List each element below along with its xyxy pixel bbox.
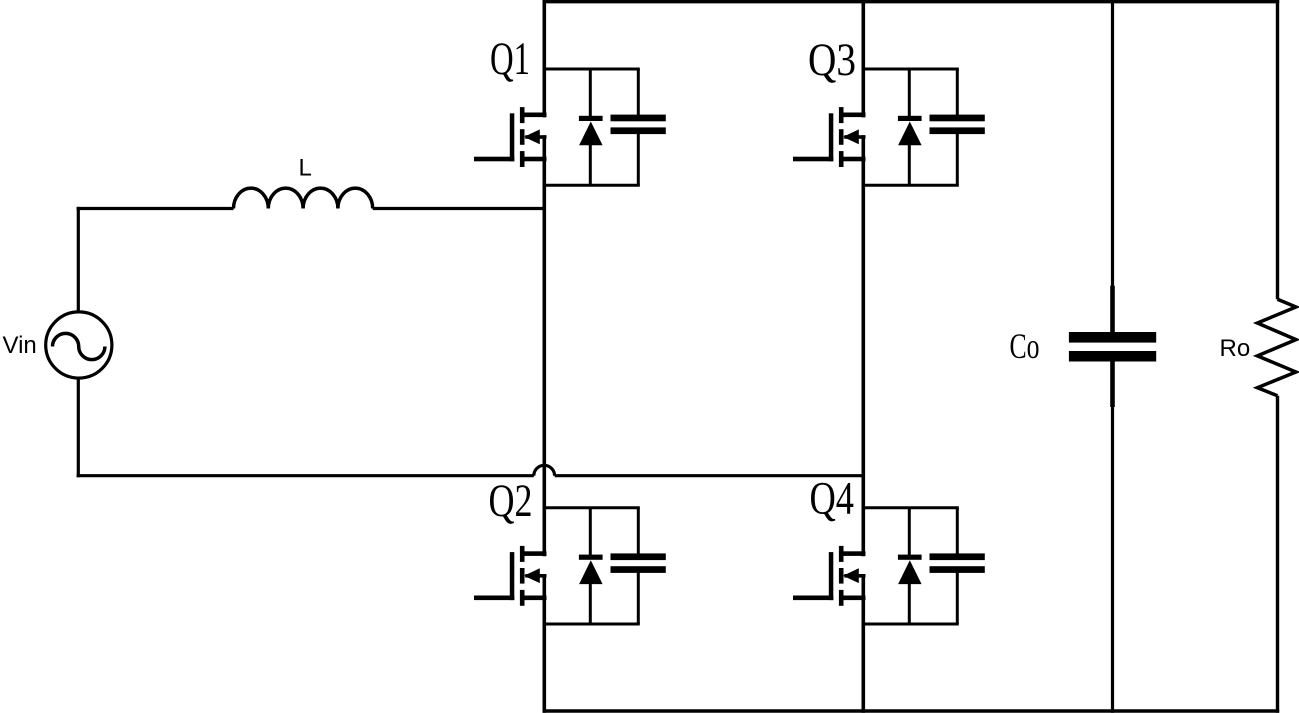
wire: right bridge leg (Q3/Q4), broken at MOSFET channels (861, 0, 865, 713)
transistor Q2 cell outline and internal wires (544, 508, 640, 624)
wire: right edge bottom lead from load (1276, 396, 1279, 713)
wire: inductor to left leg midpoint (node A) (373, 207, 545, 210)
wire: left bridge leg (Q1/Q2), broken at MOSFET channels (542, 0, 546, 713)
output capacitor Co branch wires (1111, 0, 1114, 713)
svg-text:Q2: Q2 (489, 475, 533, 527)
wire: Vin top lead (77, 207, 80, 312)
AC source Vin symbol (46, 312, 112, 378)
wire: Vin bottom return line to right leg midpoint, with crossover hop at left leg (77, 465, 864, 475)
parallel capacitor of Q1 (611, 115, 666, 135)
MOSFET symbol of Q4 (793, 546, 866, 606)
svg-text:Co: Co (1010, 326, 1040, 366)
body diode of Q4 (898, 555, 922, 585)
parallel capacitor of Q2 (611, 553, 666, 573)
svg-text:Vin: Vin (3, 332, 37, 359)
wire: bottom rail (negative output bus) (543, 709, 1280, 712)
inductor L (234, 188, 373, 208)
body diode of Q2 (579, 555, 603, 585)
transistor Q1 cell outline and internal wires (544, 69, 640, 185)
wire: input line from Vin to inductor (77, 207, 234, 210)
svg-text:Q3: Q3 (808, 34, 856, 86)
output capacitor Co plates (1069, 332, 1156, 362)
transistor Q4 cell outline and internal wires (863, 508, 959, 624)
wire: top rail (positive output bus) (543, 0, 1280, 3)
svg-text:Ro: Ro (1220, 335, 1251, 362)
MOSFET symbol of Q1 (474, 107, 547, 167)
body diode of Q1 (579, 116, 603, 146)
parallel capacitor of Q4 (930, 553, 985, 573)
resistor Ro (load) zigzag (1257, 299, 1296, 395)
body diode of Q3 (898, 116, 922, 146)
MOSFET symbol of Q2 (474, 546, 547, 606)
wire: Vin bottom lead (77, 378, 80, 478)
parallel capacitor of Q3 (930, 115, 985, 135)
svg-text:Q1: Q1 (490, 33, 530, 85)
transistor Q3 cell outline and internal wires (863, 69, 959, 185)
wire: right edge top lead to load (1276, 0, 1279, 299)
MOSFET symbol of Q3 (793, 107, 866, 167)
svg-text:L: L (299, 154, 312, 181)
svg-text:Q4: Q4 (810, 473, 855, 525)
